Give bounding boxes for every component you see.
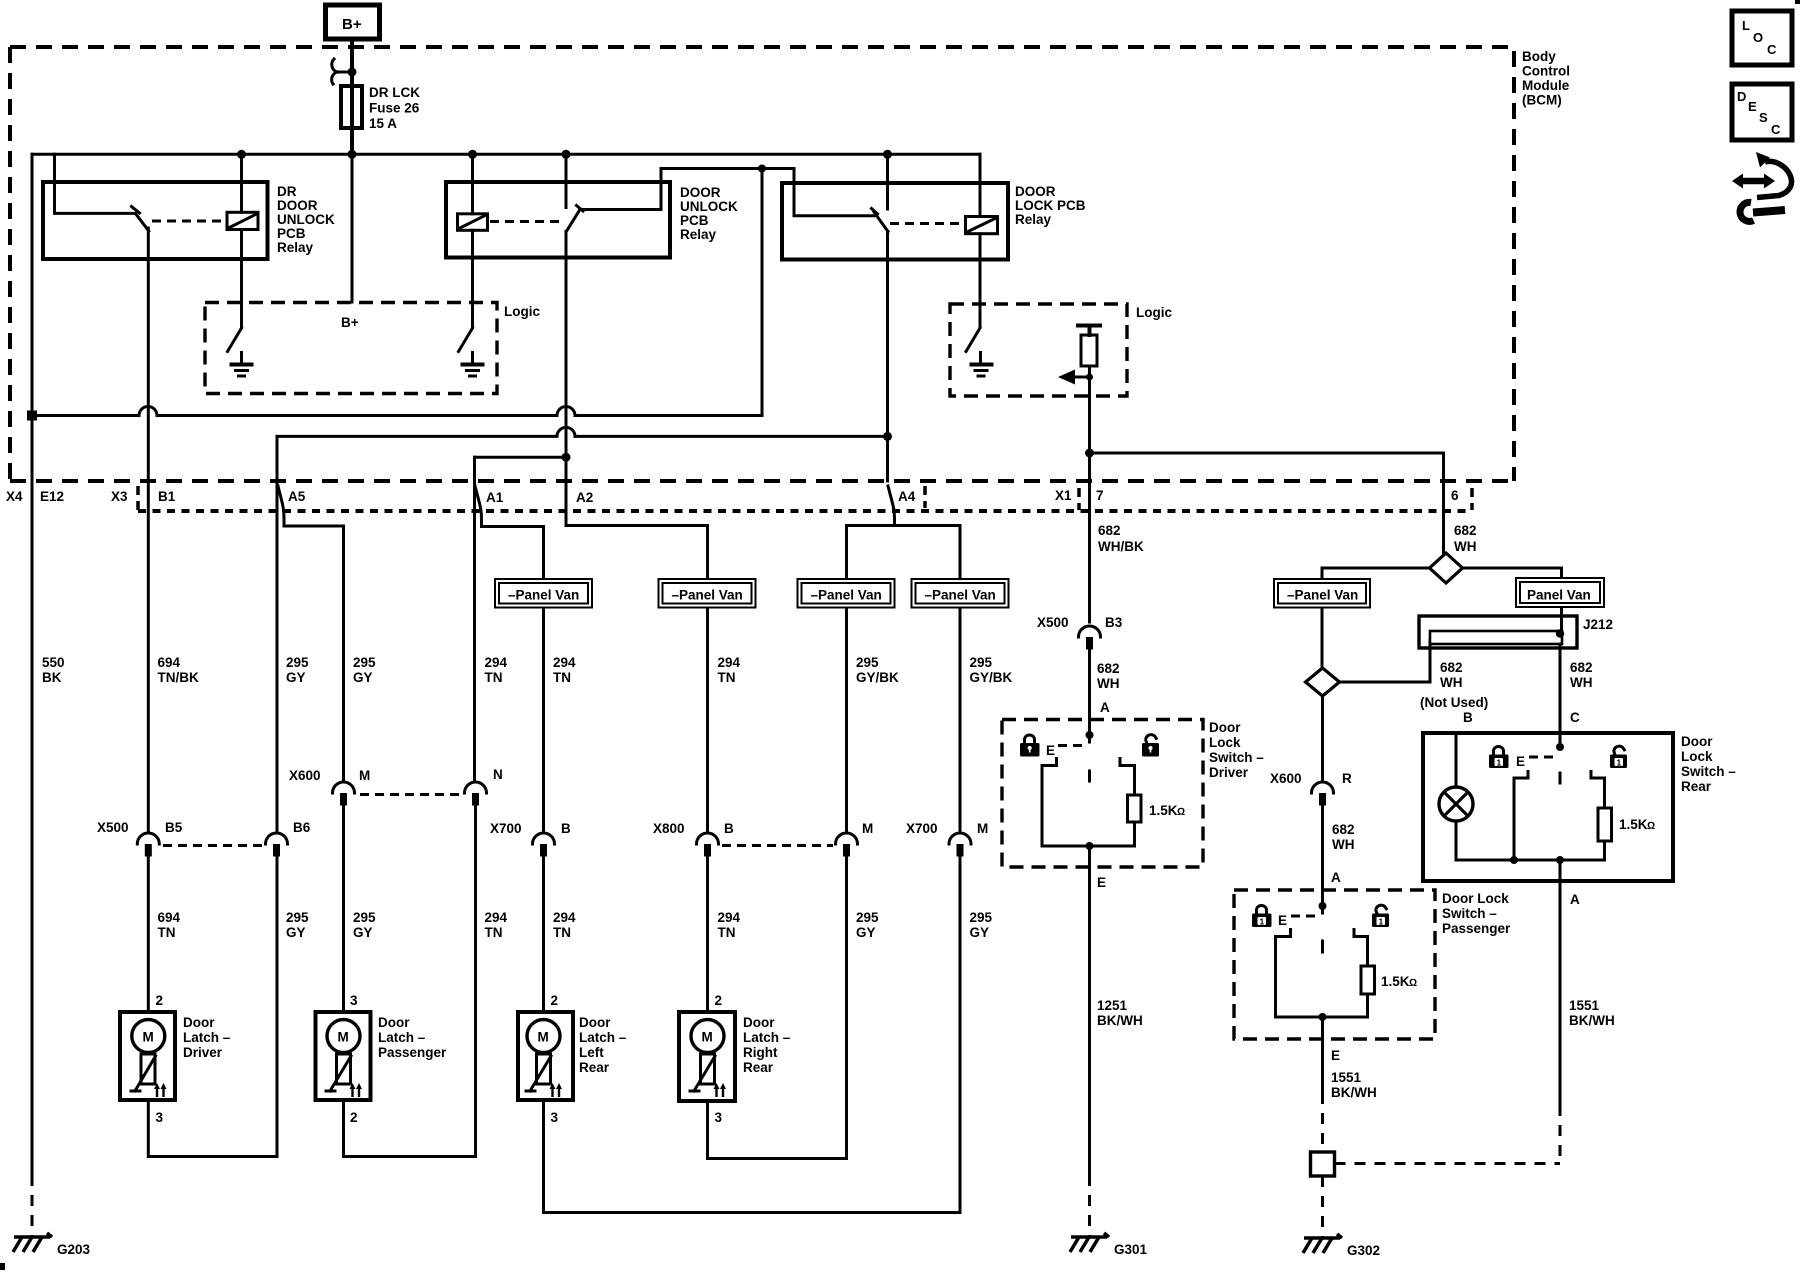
logic switch for relay3 [966, 328, 980, 352]
wire 294 TN below X800 B to right rear latch [706, 856, 709, 1012]
wire: right branch through Panel Van to J212 [1560, 607, 1563, 632]
door lock switch driver dashed box [1002, 720, 1203, 868]
svg-text:Latch –: Latch – [743, 1030, 791, 1045]
dashed link splice to rear switch pin A [1335, 1162, 1561, 1165]
actuator [701, 1054, 715, 1084]
relay K2 switch contact tick [577, 206, 584, 212]
wire: X600 R to switch [1321, 805, 1324, 913]
svg-text:1551: 1551 [1331, 1070, 1362, 1085]
svg-text:B6: B6 [293, 820, 311, 835]
wire 294 TN: A2 to X800 B [566, 481, 708, 831]
dashed drop to G301 [1088, 1175, 1091, 1236]
svg-text:Rear: Rear [743, 1060, 774, 1075]
connector X800 M [836, 833, 858, 844]
node: junction A1/A2 [562, 453, 571, 462]
svg-text:M: M [538, 1030, 549, 1045]
svg-text:295: 295 [353, 655, 376, 670]
svg-text:X4: X4 [6, 489, 23, 504]
svg-text:A: A [1100, 700, 1110, 715]
wire: E12 vertical (550 BK top) [31, 154, 34, 1175]
svg-text:X3: X3 [111, 489, 128, 504]
node: bus junction relay2 coil [468, 150, 477, 159]
svg-text:2: 2 [551, 993, 559, 1008]
wire: pin E down [1088, 846, 1091, 1175]
svg-text:UNLOCK: UNLOCK [277, 212, 335, 227]
dashed drop to splice [1321, 1093, 1324, 1152]
svg-text:295: 295 [970, 910, 993, 925]
svg-text:DR: DR [277, 184, 297, 199]
svg-text:3: 3 [551, 1110, 559, 1125]
svg-text:X700: X700 [490, 821, 522, 836]
svg-text:Left: Left [579, 1045, 604, 1060]
wire 294 TN below X700 B to left rear latch [542, 856, 545, 1012]
relay K1 coil [227, 212, 258, 229]
option box -Panel Van (wire 295 GY/BK x846) [798, 579, 895, 608]
relay K2 switch arm [566, 210, 580, 232]
harness connector dotted row [138, 509, 1472, 513]
logic output resistor to pin 7 [1078, 324, 1100, 328]
pigtail A4 branch [847, 486, 961, 831]
svg-text:682: 682 [1098, 523, 1121, 538]
svg-text:TN: TN [485, 925, 503, 940]
svg-text:3: 3 [156, 1110, 164, 1125]
splice diamond lower [1306, 668, 1340, 696]
wire 682 WH/BK: pin7 to X500 B3 [1088, 481, 1091, 622]
svg-text:682: 682 [1332, 822, 1355, 837]
wire 295 GY: A5 to X500 B6 [276, 481, 279, 831]
svg-text:1: 1 [1260, 917, 1265, 927]
svg-text:A5: A5 [288, 489, 306, 504]
svg-text:G301: G301 [1114, 1242, 1148, 1257]
svg-text:550: 550 [42, 655, 65, 670]
svg-text:294: 294 [553, 910, 576, 925]
svg-text:B+: B+ [342, 16, 362, 33]
svg-text:BK: BK [42, 670, 62, 685]
option box -Panel Van (wire 294 TN x708) [659, 579, 756, 608]
svg-text:C: C [1570, 710, 1580, 725]
svg-text:E: E [1046, 743, 1055, 758]
svg-text:BK/WH: BK/WH [1097, 1013, 1143, 1028]
relay K1 switch contact tick [132, 207, 140, 214]
svg-text:D: D [1737, 89, 1746, 104]
svg-text:B+: B+ [341, 315, 359, 330]
connector X500 B5-B6 dashed link [163, 844, 262, 847]
svg-text:Switch –: Switch – [1681, 764, 1736, 779]
node: switch common junction [1086, 731, 1094, 739]
svg-text:TN: TN [718, 670, 736, 685]
actuator [337, 1054, 351, 1084]
ground in logic (relay2) [471, 353, 474, 364]
svg-text:1: 1 [1617, 758, 1622, 768]
svg-text:Passenger: Passenger [378, 1045, 447, 1060]
arrow pointing left on logic output [1074, 376, 1090, 379]
svg-text:Body: Body [1522, 49, 1556, 64]
svg-text:1.5K: 1.5K [1149, 803, 1178, 818]
dashed drop splice to G302 [1321, 1176, 1324, 1237]
wire: bus to relay3 fixed contact [886, 154, 889, 209]
svg-text:Logic: Logic [1136, 305, 1172, 320]
node: bus junction relay1 coil [237, 150, 246, 159]
svg-text:Door: Door [743, 1015, 775, 1030]
svg-text:DR LCK: DR LCK [369, 85, 420, 100]
svg-text:BK/WH: BK/WH [1331, 1085, 1377, 1100]
svg-text:B: B [724, 821, 734, 836]
svg-text:1: 1 [1497, 758, 1502, 768]
svg-text:Driver: Driver [183, 1045, 223, 1060]
node: switch common junction [1556, 743, 1564, 751]
svg-text:Latch –: Latch – [378, 1030, 426, 1045]
svg-text:E: E [1748, 99, 1757, 114]
svg-text:Rear: Rear [1681, 779, 1712, 794]
svg-text:3: 3 [715, 1110, 723, 1125]
ground in logic (relay3) [979, 353, 982, 364]
svg-text:X500: X500 [97, 820, 129, 835]
svg-text:C: C [1771, 122, 1781, 137]
door latch passenger [316, 993, 448, 1125]
wire: diamond2 right to J212 pin B side [1340, 640, 1431, 682]
relay K1 switch arm [136, 214, 149, 232]
svg-text:TN: TN [485, 670, 503, 685]
DESC box [1732, 84, 1792, 140]
node: switch common junction [1319, 902, 1327, 910]
svg-text:M: M [702, 1030, 713, 1045]
svg-text:294: 294 [485, 655, 508, 670]
svg-text:Control: Control [1522, 64, 1570, 79]
svg-text:M: M [143, 1030, 154, 1045]
svg-text:GY: GY [970, 925, 990, 940]
svg-text:Door: Door [183, 1015, 215, 1030]
svg-text:Lock: Lock [1681, 749, 1713, 764]
wire: horizontal y457 A1 link [475, 456, 567, 459]
svg-text:682: 682 [1570, 660, 1593, 675]
svg-text:X700: X700 [906, 821, 938, 836]
svg-text:A4: A4 [898, 489, 916, 504]
option box -Panel Van (wire 295 GY/BK x960) [912, 579, 1009, 608]
svg-text:WH: WH [1570, 675, 1593, 690]
arrow-wrench icon [1732, 152, 1792, 221]
svg-text:GY: GY [286, 925, 306, 940]
svg-text:M: M [338, 1030, 349, 1045]
motor M [132, 1020, 165, 1053]
svg-text:295: 295 [970, 655, 993, 670]
wire: bus to relay1 coil [240, 154, 243, 212]
svg-text:Ω: Ω [1409, 977, 1417, 989]
wire: X500 B3 to switch [1088, 650, 1091, 742]
svg-text:294: 294 [718, 655, 741, 670]
svg-text:UNLOCK: UNLOCK [680, 199, 738, 214]
logic switch for relay2 [459, 328, 473, 352]
svg-text:N: N [493, 767, 503, 782]
svg-text:–Panel Van: –Panel Van [672, 588, 743, 603]
node: junction at x762 [758, 165, 766, 173]
dashed link relay3 coil-switch [890, 222, 966, 225]
relay K3 switch arm [874, 212, 888, 232]
resistor 1.5K driver [1128, 795, 1142, 822]
node: bus junction relay2 switch [562, 150, 571, 159]
lock icon (closed padlock) [1489, 747, 1509, 769]
svg-text:G203: G203 [57, 1242, 91, 1257]
wire: pin A down [1559, 860, 1562, 1105]
wire: diamond to left branch [1322, 568, 1430, 579]
svg-text:2: 2 [715, 993, 723, 1008]
pin B stub to lamp [1455, 733, 1458, 787]
connector J212 [1419, 616, 1577, 648]
svg-text:(Not Used): (Not Used) [1420, 695, 1488, 710]
dashed drop to splice link [1559, 1105, 1562, 1164]
svg-text:1.5K: 1.5K [1381, 974, 1410, 989]
svg-text:X600: X600 [289, 768, 321, 783]
actuator [141, 1054, 155, 1084]
wire: bus corner down to relay3 coil [979, 154, 982, 216]
wire 694 TN below X500 B5 [147, 856, 150, 1012]
door latch left rear [518, 993, 627, 1125]
svg-text:Door: Door [579, 1015, 611, 1030]
pigtail A1 branch [475, 486, 544, 831]
relay K2 box [446, 182, 670, 258]
dashed link relay2 coil-switch [490, 220, 560, 223]
relay K1 box [43, 182, 268, 259]
relay K3 switch contact tick [872, 209, 878, 215]
wire right rear latch pin3 loop to X800 M [708, 856, 847, 1159]
svg-text:295: 295 [353, 910, 376, 925]
page corner artifact top right [1795, 0, 1800, 4]
svg-text:GY: GY [353, 670, 373, 685]
svg-text:694: 694 [158, 655, 181, 670]
wire 294 TN below X600 N to passenger latch loop [344, 805, 476, 1157]
svg-text:TN: TN [553, 670, 571, 685]
svg-text:1551: 1551 [1569, 998, 1600, 1013]
svg-text:–Panel Van: –Panel Van [508, 588, 579, 603]
svg-text:PCB: PCB [277, 226, 306, 241]
wire 295 GY below X500 B6 to driver latch loop [148, 856, 277, 1157]
svg-text:682: 682 [1097, 661, 1120, 676]
svg-text:Door: Door [378, 1015, 410, 1030]
connector X600 M-N dashed link [360, 793, 462, 796]
logic dashed box left [205, 303, 497, 394]
option box Panel Van (wire 682 WH x1562) [1516, 578, 1604, 607]
svg-text:M: M [359, 768, 370, 783]
svg-text:GY: GY [286, 670, 306, 685]
svg-text:1.5K: 1.5K [1619, 817, 1648, 832]
svg-text:X800: X800 [653, 821, 685, 836]
svg-text:Fuse 26: Fuse 26 [369, 101, 420, 116]
dashed link relay1 coil-switch [152, 220, 227, 223]
wire: relay1 coil to logic [240, 230, 243, 328]
svg-text:LOCK PCB: LOCK PCB [1015, 198, 1086, 213]
node: junction pin7 wire [1085, 449, 1094, 458]
svg-text:M: M [977, 821, 988, 836]
relay K3 box [782, 183, 1008, 260]
ground in logic (relay1) [240, 353, 243, 364]
connector X800 B-M dashed link [722, 844, 833, 847]
splice box S [1311, 1152, 1335, 1176]
ground G301 [1070, 1233, 1109, 1252]
svg-text:M: M [862, 821, 873, 836]
svg-text:X1: X1 [1055, 488, 1072, 503]
wire: relay2 switch to relay3 feed link [580, 169, 874, 216]
svg-text:BK/WH: BK/WH [1569, 1013, 1615, 1028]
pigtail A5 branch [278, 486, 344, 780]
svg-text:Ω: Ω [1177, 806, 1185, 818]
svg-text:O: O [1753, 30, 1763, 45]
svg-text:DOOR: DOOR [680, 185, 721, 200]
wire: relay1 switch output down (to B1) [147, 228, 150, 481]
relay K2 coil [458, 214, 488, 231]
svg-text:B: B [1463, 710, 1473, 725]
bottom rail [1042, 845, 1135, 848]
svg-text:–Panel Van: –Panel Van [925, 588, 996, 603]
svg-text:Latch –: Latch – [579, 1030, 627, 1045]
wire: B+ bus [32, 153, 980, 156]
svg-text:E: E [1516, 754, 1525, 769]
wire B+ feed down from B+ box through fuse to bus [350, 38, 354, 155]
svg-text:PCB: PCB [680, 213, 709, 228]
door lock switch rear solid box [1423, 733, 1673, 881]
relay K3 coil [966, 217, 998, 234]
wire: relay3 arm output down to junction [886, 232, 889, 437]
svg-text:X600: X600 [1270, 771, 1302, 786]
wire: relay2 coil to logic [471, 230, 474, 327]
svg-text:L: L [1742, 18, 1750, 33]
node: square junction at left [27, 411, 37, 421]
unlock icon (open padlock) [1372, 904, 1389, 927]
lock icon (closed padlock) [1020, 735, 1040, 757]
svg-text:Relay: Relay [1015, 212, 1052, 227]
motor M [691, 1020, 724, 1053]
dashed drop to G203 [31, 1175, 34, 1236]
svg-text:Driver: Driver [1209, 765, 1249, 780]
svg-text:294: 294 [718, 910, 741, 925]
svg-text:Switch –: Switch – [1209, 750, 1264, 765]
svg-text:Relay: Relay [680, 227, 717, 242]
svg-text:Logic: Logic [504, 304, 540, 319]
logic dashed box right [950, 304, 1127, 396]
connector separator dashes [136, 486, 140, 510]
wire: bus step feed to relay1 switch [55, 154, 135, 213]
wire: horizontal y415 with hops [32, 169, 762, 416]
svg-text:15 A: 15 A [369, 116, 397, 131]
svg-text:682: 682 [1440, 660, 1463, 675]
right contact hook to resistor [1354, 930, 1368, 967]
svg-text:DOOR: DOOR [277, 198, 318, 213]
wire 295 GY below X600 M to passenger latch [342, 805, 345, 1012]
svg-text:Panel Van: Panel Van [1527, 588, 1591, 603]
svg-text:TN: TN [553, 925, 571, 940]
svg-text:WH/BK: WH/BK [1098, 539, 1144, 554]
ground G203 [13, 1233, 52, 1252]
svg-text:694: 694 [158, 910, 181, 925]
svg-text:1: 1 [1379, 917, 1384, 927]
svg-text:A: A [1570, 892, 1580, 907]
svg-text:TN: TN [158, 925, 176, 940]
option box -Panel Van (wire 682 WH x1322) [1274, 579, 1370, 608]
svg-text:C: C [1767, 42, 1777, 57]
wire: diamond2 down to X600 R [1321, 696, 1324, 780]
svg-text:Lock: Lock [1209, 735, 1241, 750]
svg-text:GY/BK: GY/BK [970, 670, 1013, 685]
svg-text:295: 295 [286, 655, 309, 670]
svg-text:Relay: Relay [277, 240, 314, 255]
svg-text:B3: B3 [1105, 615, 1123, 630]
bottom rail [1456, 859, 1605, 862]
svg-text:B: B [561, 821, 571, 836]
bottom rail [1276, 1016, 1368, 1019]
wire 682 WH: pin6 down to diamond [1442, 481, 1445, 554]
svg-text:G302: G302 [1347, 1243, 1380, 1258]
svg-text:TN: TN [718, 925, 736, 940]
left contact hook to rail [1276, 930, 1291, 1018]
svg-text:E: E [1097, 875, 1106, 890]
LOC box [1732, 11, 1792, 65]
svg-text:E: E [1278, 913, 1287, 928]
svg-text:TN/BK: TN/BK [158, 670, 199, 685]
lock icon (closed padlock) [1252, 906, 1272, 928]
connector X500 B6 [266, 833, 288, 844]
svg-text:295: 295 [856, 655, 879, 670]
fuse DR LCK Fuse 26 15 A [341, 86, 362, 128]
svg-text:Latch –: Latch – [183, 1030, 231, 1045]
svg-text:(BCM): (BCM) [1522, 93, 1562, 108]
door latch driver [120, 993, 231, 1125]
svg-text:6: 6 [1451, 488, 1459, 503]
svg-text:WH: WH [1332, 837, 1355, 852]
svg-text:Door Lock: Door Lock [1442, 891, 1509, 906]
svg-text:295: 295 [856, 910, 879, 925]
svg-text:Module: Module [1522, 78, 1570, 93]
svg-text:1251: 1251 [1097, 998, 1128, 1013]
svg-text:–Panel Van: –Panel Van [811, 588, 882, 603]
clip symbol on B+ wire [332, 59, 352, 84]
svg-text:294: 294 [485, 910, 508, 925]
svg-text:DOOR: DOOR [1015, 184, 1056, 199]
wire 694 TN/BK: B1 to X500 B5 [147, 481, 150, 831]
svg-text:Rear: Rear [579, 1060, 610, 1075]
svg-text:Ω: Ω [1647, 820, 1655, 832]
svg-text:7: 7 [1096, 488, 1104, 503]
wire: J212 pin C down to rear switch [1559, 644, 1562, 747]
svg-text:Passenger: Passenger [1442, 921, 1511, 936]
svg-text:WH: WH [1097, 676, 1120, 691]
svg-text:WH: WH [1454, 539, 1477, 554]
wire left rear latch pin3 loop to X700 M [544, 856, 961, 1213]
indicator lamp [1439, 787, 1473, 821]
door lock switch passenger dashed box [1234, 890, 1435, 1039]
unlock icon (open padlock) [1142, 733, 1159, 756]
wire B+ continues below bus into logic box (B+ stub) [351, 155, 354, 302]
svg-text:2: 2 [156, 993, 164, 1008]
left contact hook to rail [1514, 772, 1528, 861]
svg-text:A: A [1331, 870, 1341, 885]
svg-text:–Panel Van: –Panel Van [1287, 588, 1358, 603]
wire: A4 drop [886, 436, 889, 481]
wire 294 TN: A1 to X600 N [473, 481, 476, 780]
svg-text:S: S [1759, 110, 1768, 125]
resistor 1.5K passenger [1361, 966, 1375, 994]
left contact hook to rail [1042, 759, 1057, 847]
junction fuse to bus [348, 150, 357, 159]
moving contact dash [1559, 773, 1562, 783]
resistor 1.5K rear [1598, 808, 1612, 841]
svg-text:Switch –: Switch – [1442, 906, 1497, 921]
ground G302 [1303, 1234, 1342, 1253]
page corner artifact [0, 1263, 5, 1270]
svg-text:X500: X500 [1037, 615, 1069, 630]
svg-text:Door: Door [1209, 720, 1241, 735]
logic switch for relay1 [228, 328, 242, 352]
wire: pin E down [1321, 1017, 1324, 1093]
right contact hook to resistor [1591, 772, 1605, 809]
node: bus junction relay3 switch [883, 150, 892, 159]
